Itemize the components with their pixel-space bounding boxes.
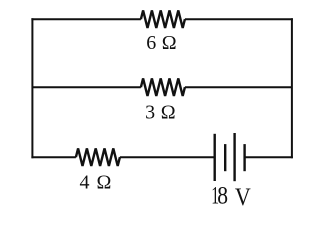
battery B1 plate 1 (long) xyxy=(213,134,215,181)
resistor R2 (3 ohm) zigzag xyxy=(141,78,185,96)
wire: top side, left lead to R1 xyxy=(31,18,140,20)
wire: top side, R1 to right corner xyxy=(185,18,293,20)
wire: bottom side, battery to right corner xyxy=(245,156,293,158)
wire: bottom side, R3 to battery positive plate xyxy=(120,156,215,158)
resistor R1 (6 ohm) zigzag xyxy=(141,10,185,28)
wire: middle branch, left lead to R2 xyxy=(32,86,140,88)
svg-text:4: 4 xyxy=(80,171,90,193)
wire: bottom side, left corner to R3 xyxy=(31,156,76,158)
battery B1 plate 2 (short) xyxy=(224,144,226,171)
svg-text:Ω: Ω xyxy=(97,171,112,193)
svg-text:8: 8 xyxy=(217,183,228,210)
svg-text:3: 3 xyxy=(145,101,155,123)
svg-text:Ω: Ω xyxy=(162,32,177,54)
battery B1 plate 3 (long) xyxy=(233,133,235,181)
svg-text:Ω: Ω xyxy=(161,101,176,123)
svg-text:6: 6 xyxy=(146,32,156,54)
wire: left vertical branch xyxy=(31,18,33,158)
resistor R3 (4 ohm) zigzag xyxy=(76,148,120,166)
svg-text:V: V xyxy=(235,184,251,211)
battery B1 plate 4 (short) xyxy=(243,144,245,171)
wire: right vertical branch xyxy=(291,18,293,158)
wire: middle branch, R2 to right vertical xyxy=(185,86,292,88)
